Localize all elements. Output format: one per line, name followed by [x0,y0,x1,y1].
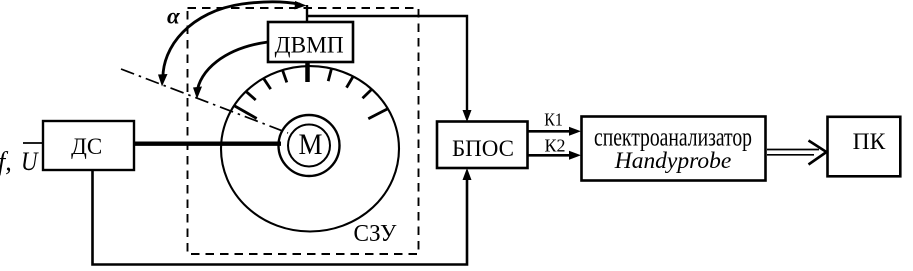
svg-text:СЗУ: СЗУ [354,221,397,247]
svg-text:α: α [167,4,181,29]
angle arc outer (alpha) [158,1,307,87]
double-line arrow to ПК [767,141,827,165]
svg-text:Handyprobe: Handyprobe [614,148,732,173]
arrow К1: БПОС to analyzer [528,110,582,136]
svg-text:ДВМП: ДВМП [275,33,344,58]
svg-text:ПК: ПК [853,129,886,155]
dash-dot axis line [121,69,288,133]
wire top: ДВМП to БПОС [307,16,472,122]
svg-text:М: М [299,128,323,161]
svg-text:f,: f, [0,147,12,176]
wire ДВМП stub up [306,5,308,22]
dial scale ticks [234,69,388,119]
feedback wire ДС to БПОС (bottom) [93,168,472,265]
angle arc inner [193,42,268,99]
pointer tick (12 o'clock thick) [305,62,310,82]
block ДС (sensor) [43,121,134,170]
wire ДС to motor M (thick shaft line) [134,142,281,146]
svg-text:ДС: ДС [71,134,102,159]
svg-text:К1: К1 [544,110,563,130]
stator dial (large ellipse) [221,66,399,231]
svg-text:БПОС: БПОС [452,136,514,161]
dashed enclosure СЗУ [188,8,419,254]
block ДВМП [268,22,353,62]
block ПК [828,117,901,177]
rotor circles [279,115,340,176]
svg-text:К2: К2 [545,136,566,156]
block спектроанализатор Handyprobe [582,117,766,181]
svg-text:U: U [21,147,39,176]
arrow К2: БПОС to analyzer [528,136,582,160]
label f, U (input signals) [0,143,42,176]
block БПОС [437,122,528,169]
